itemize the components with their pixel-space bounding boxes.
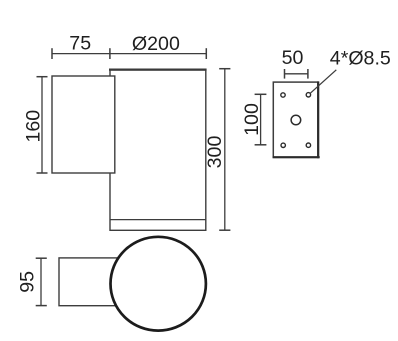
svg-text:75: 75 [69,33,91,55]
svg-text:Ø200: Ø200 [132,33,180,55]
svg-text:300: 300 [204,136,226,169]
svg-text:4*Ø8.5: 4*Ø8.5 [330,47,391,69]
svg-text:160: 160 [22,110,44,143]
svg-text:50: 50 [282,47,304,69]
svg-text:95: 95 [17,271,39,293]
svg-text:100: 100 [241,103,263,136]
